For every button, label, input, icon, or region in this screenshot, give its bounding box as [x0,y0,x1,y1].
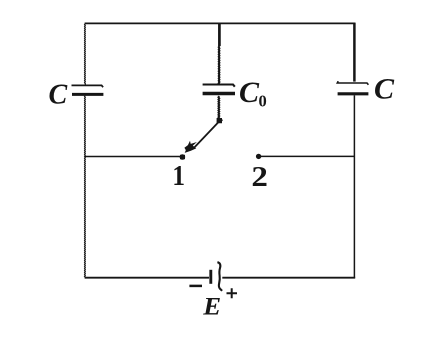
wire bottom horizontal left of battery [85,277,209,279]
capacitor C (left) bottom plate [72,93,103,96]
capacitor C0 top plate [203,85,235,87]
capacitor C0 bottom plate [203,92,235,96]
wire middle horizontal left segment [85,156,181,158]
node 1 junction dot [180,154,186,160]
switch arm [194,122,219,148]
battery minus sign [189,285,202,288]
switch pivot node [217,117,223,124]
wire right vertical upper [353,23,356,82]
capacitor C (right) bottom plate [338,92,369,95]
wire bottom horizontal right of battery [222,277,355,279]
wire middle horizontal right segment [261,155,355,157]
battery E short negative plate [209,270,212,284]
capacitor C (right) top plate [337,81,368,85]
wire top horizontal [85,22,355,24]
node 2 junction dot [256,154,261,159]
svg-text:1: 1 [172,160,185,192]
svg-text:2: 2 [251,161,268,192]
svg-text:0: 0 [259,91,267,110]
wire left vertical lower (rough) [84,96,87,277]
switch arrowhead [184,141,197,153]
svg-text:C: C [239,76,260,109]
battery E long positive plate (curly) [217,262,222,291]
wire left vertical upper (rough) [84,24,87,85]
svg-text:E: E [202,292,221,320]
battery plus sign [227,288,238,298]
svg-text:C: C [49,80,68,111]
svg-text:C: C [374,73,395,106]
wire right vertical lower [353,95,355,277]
wire middle vertical upper [218,23,221,46]
wire from C0 down to switch pivot (rough) [217,96,220,118]
capacitor C (left) top plate [72,85,104,87]
